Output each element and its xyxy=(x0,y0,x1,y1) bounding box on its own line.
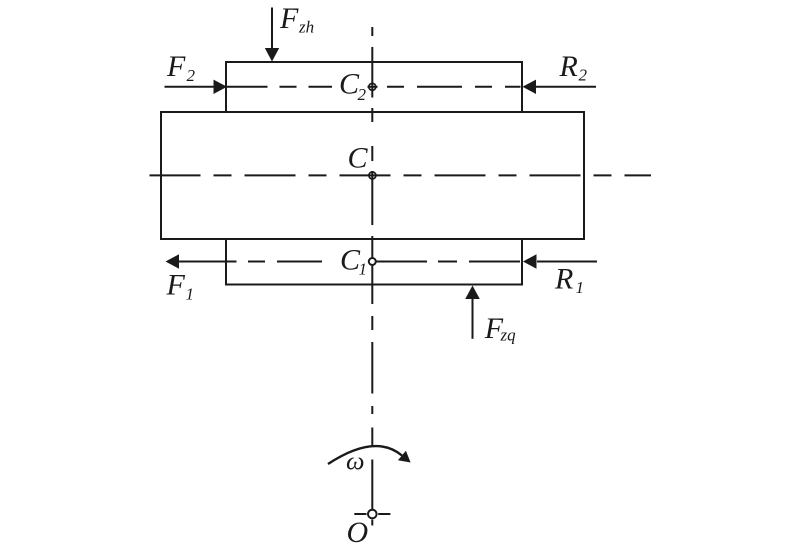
stub through C2 point xyxy=(368,86,378,88)
svg-text:1: 1 xyxy=(186,285,195,304)
svg-text:zh: zh xyxy=(298,18,314,37)
force F1 arrow shaft xyxy=(179,261,237,263)
svg-text:C: C xyxy=(348,142,369,175)
Fzq arrowhead xyxy=(465,286,480,300)
svg-text:2: 2 xyxy=(187,66,196,85)
force Fzh arrow shaft xyxy=(271,8,273,50)
reaction R2 arrow shaft xyxy=(536,86,596,88)
dashed line through C1 (left part) xyxy=(248,261,334,263)
svg-text:F: F xyxy=(166,269,186,302)
point C (circle with cross) xyxy=(369,172,376,179)
dashed line through C1 (right part) xyxy=(376,261,521,263)
O bottom tick xyxy=(371,520,373,526)
point C1 (open circle) xyxy=(369,258,376,265)
R1 arrowhead xyxy=(523,254,537,268)
force F2 arrow shaft xyxy=(165,86,215,88)
main body rectangle xyxy=(161,112,584,239)
svg-text:R: R xyxy=(559,50,578,83)
vertical centerline (dash-dot segments) xyxy=(371,27,373,447)
point C2 (circle with cross) xyxy=(369,83,376,90)
force Fzq arrow shaft xyxy=(472,298,474,339)
R2 arrowhead xyxy=(523,80,537,94)
dashed line through C2 (left part) xyxy=(227,86,333,88)
svg-text:O: O xyxy=(347,516,369,549)
svg-text:1: 1 xyxy=(359,260,368,279)
svg-text:1: 1 xyxy=(576,278,585,297)
point O (open circle) xyxy=(368,510,377,519)
top plate rectangle xyxy=(226,62,522,112)
horizontal centerline through C xyxy=(150,174,652,176)
bottom plate rectangle xyxy=(226,239,522,285)
svg-text:F: F xyxy=(166,50,186,83)
svg-text:2: 2 xyxy=(358,85,367,104)
svg-text:2: 2 xyxy=(579,66,588,85)
svg-text:F: F xyxy=(279,2,299,35)
omega rotation arc xyxy=(328,446,402,464)
omega arc arrowhead xyxy=(398,451,411,463)
F1 arrowhead xyxy=(166,254,180,268)
O left tick xyxy=(354,513,366,515)
svg-text:zq: zq xyxy=(500,326,517,345)
O right tick xyxy=(378,513,390,515)
svg-text:ω: ω xyxy=(346,449,365,476)
F2 arrowhead xyxy=(214,80,228,94)
reaction R1 arrow shaft xyxy=(537,261,597,263)
vertical axis solid segment to O xyxy=(371,460,373,510)
dashed line through C2 (right part) xyxy=(387,86,521,88)
svg-text:R: R xyxy=(554,263,573,296)
Fzh arrowhead xyxy=(265,48,279,62)
